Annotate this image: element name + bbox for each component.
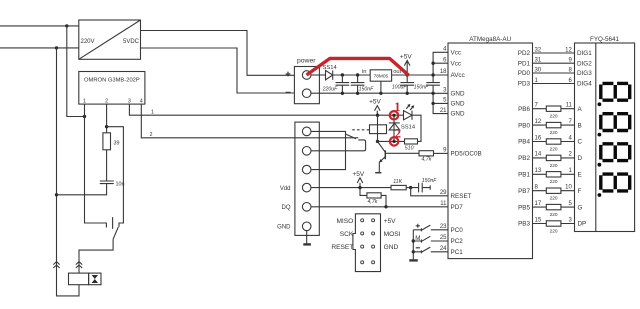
svg-text:DIG4: DIG4 (577, 81, 592, 88)
svg-text:31: 31 (535, 58, 542, 64)
capacitor C 10n (100, 181, 114, 184)
button - PC1 (416, 247, 420, 249)
svg-text:PD1: PD1 (518, 60, 531, 67)
svg-text:4: 4 (140, 99, 143, 105)
wire DIG4 PD3 (533, 83, 575, 85)
pin GND (372, 245, 375, 248)
wire switch to solenoid (79, 239, 113, 273)
svg-text:+5V: +5V (369, 98, 381, 105)
diode D2 SS14 flyback (393, 115, 395, 141)
node 220uF bottom (341, 92, 344, 95)
svg-text:5: 5 (443, 98, 447, 104)
svg-text:17: 17 (535, 201, 542, 207)
node coil top (376, 114, 379, 117)
wire DIG1 PD2 (533, 52, 575, 54)
wire relay common to J2-3 (311, 134, 346, 169)
capacitor C3 100uF (400, 75, 414, 93)
svg-text:SCK: SCK (340, 231, 354, 238)
svg-text:220: 220 (550, 114, 558, 120)
svg-text:Vdd: Vdd (280, 186, 291, 192)
wire SSR pin1 to thermal switch (85, 104, 107, 227)
svg-text:MISO: MISO (336, 218, 353, 225)
red power wire annotation (307, 58, 409, 75)
svg-text:DIG2: DIG2 (577, 60, 592, 67)
resistor R 39 (103, 133, 111, 150)
svg-text:5: 5 (568, 201, 572, 207)
node reg out (406, 73, 409, 76)
node rail PC2 (412, 239, 415, 242)
svg-text:PB3: PB3 (518, 221, 530, 228)
connector chevrons left (53, 262, 59, 268)
wire PSU out - (141, 48, 295, 93)
wire Vdd +5V rail (311, 187, 391, 189)
svg-text:220: 220 (550, 212, 558, 218)
SECTION: sensor, reset, ISP, buttons (277, 122, 448, 272)
svg-text:PD5/OC0B: PD5/OC0B (451, 151, 482, 158)
svg-text:13: 13 (535, 168, 542, 174)
svg-text:PD7: PD7 (451, 204, 464, 211)
svg-text:MOSI: MOSI (384, 231, 401, 238)
op-amp U1 ATMega8A-AU body (448, 43, 533, 259)
svg-text:12: 12 (565, 48, 572, 54)
node L junction (65, 24, 68, 27)
svg-text:GND: GND (451, 101, 465, 108)
solenoid valve Y1 (69, 273, 89, 285)
svg-text:+5V: +5V (400, 54, 412, 61)
svg-text:G: G (578, 204, 583, 211)
svg-text:PB1: PB1 (518, 172, 530, 179)
node gnd pin5 (431, 102, 434, 105)
svg-text:7: 7 (535, 103, 539, 109)
svg-text:15: 15 (535, 217, 542, 223)
svg-text:11: 11 (566, 103, 573, 109)
wire vcc column (433, 52, 448, 75)
svg-text:11: 11 (440, 201, 447, 207)
svg-text:21: 21 (440, 108, 447, 114)
wire gnd column (433, 93, 448, 113)
svg-text:29: 29 (440, 190, 447, 196)
svg-text:ATMega8A-AU: ATMega8A-AU (469, 36, 511, 43)
svg-text:D: D (578, 155, 583, 162)
wire gnd rail (311, 92, 433, 94)
wire DIG2 PD1 (533, 62, 575, 64)
node vcc pin6 (431, 62, 434, 65)
wire +5V out rail (392, 74, 448, 76)
svg-text:Vcc: Vcc (451, 60, 462, 67)
pin nc2 (372, 261, 375, 264)
node gnd pin3 (431, 92, 434, 95)
svg-text:150nF: 150nF (359, 86, 375, 92)
svg-text:DIG1: DIG1 (577, 50, 592, 57)
svg-text:2: 2 (395, 127, 401, 141)
svg-text:PB6: PB6 (518, 106, 530, 113)
svg-text:GND: GND (451, 111, 465, 118)
svg-text:10: 10 (565, 185, 572, 191)
segment row A resistor R 220 (533, 108, 575, 110)
svg-text:3: 3 (128, 99, 131, 105)
segment row F resistor R 220 (533, 190, 575, 192)
svg-text:DQ: DQ (282, 205, 291, 211)
svg-text:7: 7 (568, 119, 572, 125)
svg-text:PB0: PB0 (518, 122, 530, 129)
svg-text:GND: GND (451, 90, 465, 97)
mechanical link dashed (352, 129, 369, 131)
SECTION: MCU (440, 36, 533, 259)
wire 4.7k to DQ (381, 195, 386, 206)
svg-text:E: E (578, 172, 582, 179)
wire DIG3 PD0 (533, 72, 575, 74)
node regulator gnd (379, 92, 382, 95)
svg-text:220: 220 (550, 196, 558, 202)
wire LED to corner (412, 115, 421, 141)
svg-text:F: F (578, 188, 582, 195)
node SSR pin1 junction (83, 115, 86, 118)
svg-text:220: 220 (550, 163, 558, 169)
digit 3 (601, 144, 630, 161)
svg-text:4,7k: 4,7k (368, 199, 378, 205)
node 150nF bottom (356, 92, 359, 95)
wire J2-1 to relay common (311, 131, 346, 134)
wire base resistor to PD5 (434, 152, 449, 154)
node rail PC1 (412, 250, 415, 253)
node 100uF bottom (406, 92, 409, 95)
svg-text:Vcc: Vcc (451, 49, 462, 56)
svg-text:4: 4 (568, 135, 572, 141)
svg-text:PB7: PB7 (518, 188, 530, 195)
capacitor C1 220uF (336, 75, 350, 93)
SECTION: relay driver (129, 98, 448, 172)
svg-text:14: 14 (535, 152, 542, 158)
svg-text:PB2: PB2 (518, 155, 530, 162)
svg-text:11K: 11K (393, 179, 402, 185)
node vcc rail (431, 73, 434, 76)
wire regulator gnd (380, 81, 382, 93)
capacitor C2 150nF (351, 75, 365, 93)
svg-text:220uF: 220uF (322, 86, 339, 92)
resistor R 11K (391, 185, 406, 189)
svg-text:PD3: PD3 (518, 81, 531, 88)
svg-text:SS14: SS14 (401, 124, 416, 130)
wire net2 SSR pin4 to relay contact (141, 104, 358, 138)
node reset (409, 186, 412, 189)
relay switch lever (346, 134, 357, 139)
svg-text:150nF: 150nF (414, 85, 430, 91)
digit 2 (601, 114, 630, 131)
svg-text:8: 8 (535, 185, 539, 191)
svg-text:PB4: PB4 (518, 139, 530, 146)
pin RESET (361, 245, 364, 248)
resistor R 4.7k base (419, 151, 434, 156)
node N junction (55, 46, 58, 49)
wire SSR pin2 down (106, 104, 108, 133)
svg-text:SS14: SS14 (323, 65, 338, 71)
svg-text:in: in (362, 69, 367, 75)
button + PC0 (416, 224, 420, 228)
svg-text:GND: GND (277, 225, 291, 231)
svg-text:6: 6 (443, 57, 447, 63)
transistor Q1 (378, 142, 386, 153)
svg-text:12: 12 (535, 119, 542, 125)
wire resistor to cap (106, 150, 108, 181)
svg-text:32: 32 (535, 48, 542, 54)
segment row D resistor R 220 (533, 157, 575, 159)
svg-text:PD2: PD2 (518, 50, 531, 57)
terminal - (302, 89, 311, 98)
thermal switch SW1 (112, 217, 114, 229)
svg-text:PC0: PC0 (451, 227, 464, 234)
svg-text:30: 30 (535, 68, 542, 74)
resistor R 510 (405, 139, 418, 144)
segment row C resistor R 220 (533, 141, 575, 143)
svg-text:A: A (578, 106, 583, 113)
wire +5Vin rail (333, 74, 371, 76)
pin SCK (361, 232, 364, 235)
resistor R 4.7k pullup (360, 188, 367, 196)
node snubber return junction (55, 193, 58, 196)
power supply PS1 220V-5VDC (79, 20, 141, 59)
wire mains N (0, 47, 79, 49)
svg-text:3: 3 (443, 88, 447, 94)
svg-text:power: power (297, 58, 316, 65)
svg-text:18: 18 (440, 69, 447, 75)
node net2 probe (392, 140, 395, 143)
wire bottom rail (378, 140, 405, 142)
svg-text:78M05: 78M05 (374, 74, 389, 80)
wire N drop left rail (57, 48, 80, 296)
connector J2 (295, 122, 319, 235)
segment row E resistor R 220 (533, 173, 575, 175)
red probe ring 1 (390, 111, 398, 119)
svg-text:DP: DP (578, 221, 587, 228)
terminal J2-2 (302, 147, 311, 156)
digit 4 (601, 174, 630, 191)
wire reset to pin29 (411, 188, 448, 196)
node pin2 branch (105, 125, 108, 128)
terminal J2-5 DQ (302, 203, 311, 212)
svg-text:1: 1 (568, 168, 572, 174)
relay U2 OMRON G3MB-202P (79, 72, 145, 105)
svg-text:23: 23 (440, 224, 447, 230)
wire base (385, 152, 419, 154)
svg-text:100uF: 100uF (392, 85, 408, 91)
svg-text:OMRON G3MB-202P: OMRON G3MB-202P (84, 78, 140, 84)
svg-text:2: 2 (568, 152, 572, 158)
svg-text:B: B (578, 122, 582, 129)
capacitor C5 150nF reset (411, 183, 431, 193)
ground Q1 emitter (375, 172, 381, 174)
svg-text:1: 1 (394, 100, 400, 114)
svg-text:AVcc: AVcc (451, 72, 465, 79)
terminal J2-3 (302, 165, 311, 174)
pin nc1 (361, 261, 364, 264)
wire cap to left rail (57, 184, 107, 195)
svg-text:220: 220 (550, 130, 558, 136)
wire pin2 branch to switch (107, 127, 124, 227)
svg-text:C: C (578, 139, 583, 146)
ground J2-6 (306, 231, 308, 244)
pin +5V (372, 219, 375, 222)
svg-text:16: 16 (535, 135, 542, 141)
wire coil (377, 115, 379, 141)
wire DQ to PD7 (311, 206, 448, 208)
svg-text:PB5: PB5 (518, 204, 530, 211)
svg-text:+5V: +5V (352, 171, 364, 178)
svg-text:150nF: 150nF (422, 178, 438, 184)
svg-text:2: 2 (150, 132, 153, 138)
capacitor C4 150nF (426, 75, 440, 93)
svg-text:220V: 220V (81, 39, 95, 45)
segment row B resistor R 220 (533, 124, 575, 126)
connector chevrons right (76, 262, 82, 268)
node net1 probe (392, 114, 395, 117)
svg-text:1: 1 (151, 110, 154, 116)
SECTION: display (533, 36, 635, 234)
svg-text:39: 39 (114, 141, 120, 147)
svg-text:25: 25 (440, 235, 447, 241)
wire 11K to reset node (406, 187, 411, 189)
segment row G resistor R 220 (533, 206, 575, 208)
svg-text:PD0: PD0 (518, 70, 531, 77)
svg-text:4,7k: 4,7k (422, 156, 432, 162)
wire top rail to LED (378, 114, 404, 116)
wire mains L (0, 25, 79, 27)
svg-text:1: 1 (83, 99, 86, 105)
svg-text:4: 4 (443, 47, 447, 53)
svg-text:3: 3 (568, 217, 572, 223)
svg-text:PC1: PC1 (451, 249, 464, 256)
svg-text:2: 2 (105, 99, 108, 105)
svg-text:DIG3: DIG3 (577, 70, 592, 77)
wire L drop to SSR pin1 (67, 26, 85, 117)
svg-text:5VDC: 5VDC (123, 39, 140, 45)
terminal J2-1 (302, 127, 311, 136)
wire + to diode (311, 74, 326, 76)
svg-text:GND: GND (384, 244, 399, 251)
svg-text:+5V: +5V (384, 218, 397, 225)
node Vdd junction (358, 186, 361, 189)
svg-text:510: 510 (405, 145, 414, 151)
svg-text:RESET: RESET (331, 244, 353, 251)
wire PSU out + (141, 31, 295, 76)
node 150nF top (356, 73, 359, 76)
svg-text:9: 9 (443, 148, 447, 154)
svg-text:24: 24 (440, 246, 447, 252)
pin MISO (361, 219, 364, 222)
wire relay NO contact to J2-2 (311, 140, 366, 151)
svg-text:RESET: RESET (451, 193, 472, 200)
terminal J2-6 GND (302, 222, 311, 231)
ground buttons (409, 259, 418, 261)
wire net1 SSR pin3 to +5V node (129, 104, 377, 115)
digit 1 (601, 83, 630, 100)
node DQ junction (384, 205, 387, 208)
node 220uF top (341, 73, 344, 76)
led LED1 (404, 111, 413, 120)
svg-text:FYQ-5641: FYQ-5641 (590, 36, 620, 43)
segment row DP resistor R 220 (533, 223, 575, 225)
node coil bottom (376, 140, 379, 143)
svg-text:PC2: PC2 (451, 238, 464, 245)
button rail (412, 230, 414, 259)
pin MOSI (372, 232, 375, 235)
svg-text:220: 220 (550, 228, 558, 234)
svg-text:220: 220 (550, 179, 558, 185)
svg-text:220: 220 (550, 146, 558, 152)
SECTION: left mains / PSU / SSR (0, 20, 294, 296)
red probe ring 2 (390, 137, 398, 145)
header J3 ISP (353, 214, 381, 272)
relay coil K1 (370, 125, 387, 134)
terminal J2-4 Vdd (302, 183, 311, 192)
SECTION: middle power connector and regulator (286, 52, 448, 113)
terminal + (302, 71, 311, 80)
